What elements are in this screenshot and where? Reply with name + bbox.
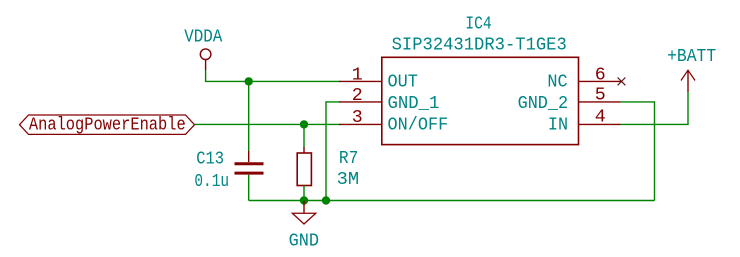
- power symbol VDDA: [184, 27, 222, 70]
- svg-text:1: 1: [352, 65, 363, 85]
- svg-text:5: 5: [595, 85, 606, 105]
- svg-text:IN: IN: [548, 116, 568, 136]
- wire GND_1 pin to left then down: [326, 102, 340, 201]
- wire label to ON/OFF pin: [195, 123, 341, 125]
- pin 5 GND_2: [518, 85, 621, 114]
- pin 4 IN: [548, 107, 621, 135]
- svg-text:3M: 3M: [337, 170, 360, 190]
- svg-text:AnalogPowerEnable: AnalogPowerEnable: [29, 115, 186, 135]
- wire IN pin to right then up to +BATT: [621, 92, 689, 125]
- svg-text:GND_1: GND_1: [388, 94, 440, 114]
- svg-text:NC: NC: [547, 73, 567, 93]
- pin 2 GND_1: [339, 86, 439, 114]
- svg-text:R7: R7: [339, 149, 358, 169]
- node junction top rail: [245, 77, 253, 85]
- svg-text:GND_2: GND_2: [518, 94, 569, 114]
- svg-text:+BATT: +BATT: [667, 47, 716, 67]
- svg-text:0.1u: 0.1u: [194, 172, 229, 192]
- wire GND_2 pin to right then down to bottom rail: [621, 102, 655, 201]
- capacitor C13: [194, 150, 263, 192]
- svg-text:C13: C13: [196, 150, 224, 170]
- wire junction down to C13: [248, 81, 250, 151]
- wire bottom rail: [249, 200, 655, 202]
- svg-text:2: 2: [352, 86, 363, 106]
- node junction bottom rail at GND_1 drop: [322, 196, 330, 204]
- svg-text:3: 3: [352, 108, 363, 128]
- pin 3 ON/OFF: [339, 108, 448, 135]
- wire C13 bottom to bottom rail: [248, 175, 250, 201]
- svg-text:ON/OFF: ON/OFF: [388, 116, 449, 136]
- global label AnalogPowerEnable: [20, 115, 195, 135]
- ground: [289, 201, 319, 252]
- node junction bottom rail at GND: [300, 196, 308, 204]
- node junction ON/OFF rail: [300, 120, 308, 128]
- svg-text:VDDA: VDDA: [184, 27, 222, 47]
- svg-text:6: 6: [595, 65, 606, 85]
- wire R7 bottom to bottom rail: [303, 186, 305, 201]
- wire VDDA to top rail: [206, 70, 340, 81]
- pin 1 OUT: [339, 65, 418, 92]
- svg-text:OUT: OUT: [388, 73, 418, 93]
- svg-text:4: 4: [595, 107, 606, 127]
- power symbol +BATT: [667, 47, 716, 92]
- resistor R7: [297, 147, 359, 190]
- IC IC4 body: [382, 57, 579, 144]
- svg-text:IC4: IC4: [465, 14, 491, 34]
- pin 6 NC: [547, 65, 620, 92]
- wire junction down to R7: [303, 124, 305, 147]
- no-connect flag on pin 6: [618, 78, 626, 86]
- svg-text:GND: GND: [289, 231, 319, 251]
- svg-text:SIP32431DR3-T1GE3: SIP32431DR3-T1GE3: [392, 35, 567, 55]
